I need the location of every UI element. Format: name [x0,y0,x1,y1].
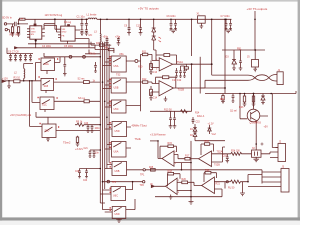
svg-text:TS2: TS2 [116,74,121,77]
svg-text:IN: IN [150,183,153,186]
svg-text:R13 50: R13 50 [164,109,172,112]
svg-text:C18: C18 [223,156,228,158]
svg-text:VIN: VIN [62,29,66,31]
svg-text:R14: R14 [195,113,200,115]
svg-text:U6A: U6A [114,151,119,154]
svg-text:R17: R17 [185,155,190,158]
svg-text:Q1 sel: Q1 sel [230,111,237,113]
svg-text:+3V TS outputs: +3V TS outputs [247,7,268,11]
svg-text:R24 100: R24 100 [231,150,240,152]
svg-text:+5V: +5V [264,126,269,129]
svg-text:R12: R12 [142,78,147,81]
svg-text:R3 10: R3 10 [14,77,21,80]
svg-text:TP1: TP1 [140,174,145,177]
svg-text:R18: R18 [168,170,173,173]
svg-text:12V 5V/3V3 reg: 12V 5V/3V3 reg [45,14,63,17]
svg-text:U6C: U6C [113,195,118,198]
svg-text:C11 C12: C11 C12 [172,79,182,82]
svg-text:R10: R10 [138,66,143,69]
svg-text:R16: R16 [205,140,210,143]
svg-text:U6D: U6D [115,213,120,216]
svg-text:+3.3V/Vsense: +3.3V/Vsense [150,134,166,137]
svg-text:C13: C13 [153,72,158,74]
svg-text:C6 100n: C6 100n [167,15,177,18]
svg-text:RL 50: RL 50 [228,187,235,190]
svg-text:C1 10u: C1 10u [77,16,86,19]
svg-text:C23: C23 [83,180,88,182]
svg-text:C14: C14 [153,98,158,100]
svg-text:+12V: +12V [2,78,8,81]
svg-text:C6 C7 C8: C6 C7 C8 [8,51,19,54]
svg-text:Vref: Vref [212,133,216,136]
svg-text:+5Va: +5Va [103,36,109,38]
svg-text:U6B: U6B [115,170,120,173]
svg-text:S2 res: S2 res [78,78,86,81]
svg-text:100n: 100n [95,128,101,130]
svg-text:SD 5V in: SD 5V in [2,16,12,19]
svg-text:40MHz TSout: 40MHz TSout [132,125,148,128]
svg-text:C21: C21 [84,148,89,150]
svg-text:DAC A: DAC A [197,115,205,118]
svg-text:U2 reg: U2 reg [64,21,72,24]
svg-text:C7 100n: C7 100n [221,15,231,18]
svg-text:S1B: S1B [44,85,49,88]
svg-text:TP3: TP3 [112,182,117,184]
svg-text:S1D: S1D [45,130,50,133]
svg-text:TSclk: TSclk [135,138,142,141]
svg-text:+3Va: +3Va [115,36,121,38]
svg-text:FB1: FB1 [237,48,242,51]
svg-text:TS1B: TS1B [178,88,185,92]
svg-text:C10: C10 [136,25,141,28]
svg-text:R15: R15 [168,142,173,145]
svg-text:U5A: U5A [114,65,119,68]
svg-text:R25: R25 [149,167,154,169]
svg-text:TP2: TP2 [140,184,145,187]
svg-text:R23: R23 [239,106,244,109]
svg-text:EN: EN [31,34,34,36]
svg-text:TSen2: TSen2 [63,142,71,145]
svg-text:I2C: I2C [89,34,93,37]
svg-text:+3.3Vs: +3.3Vs [75,148,84,151]
svg-text:R11: R11 [142,50,147,53]
svg-text:C5 100n: C5 100n [64,45,74,48]
svg-text:C20: C20 [84,123,89,125]
svg-text:R20: R20 [182,178,187,181]
svg-text:U5B: U5B [114,87,119,90]
svg-text:+5V (Vcc/IOR) out: +5V (Vcc/IOR) out [10,113,31,117]
svg-text:U5D: U5D [115,130,120,133]
svg-text:L1 ferrite: L1 ferrite [87,14,97,17]
svg-text:+5V TS outputs: +5V TS outputs [138,7,159,11]
svg-text:R19: R19 [205,169,210,172]
svg-text:TS1A: TS1A [177,60,184,64]
svg-text:VIN: VIN [31,29,35,31]
svg-text:C22: C22 [75,171,80,173]
svg-text:R9 1k: R9 1k [76,121,83,124]
svg-text:U5C: U5C [114,108,119,111]
svg-text:S3 res: S3 res [78,97,86,100]
svg-text:GND: GND [31,31,36,33]
svg-text:GND: GND [62,32,67,34]
svg-text:S1C: S1C [42,104,47,107]
svg-text:TS2B: TS2B [214,165,220,167]
svg-text:2R: 2R [20,19,23,21]
svg-text:S1A: S1A [44,63,49,66]
svg-text:+1.2V: +1.2V [208,124,215,126]
svg-text:R5 1k: R5 1k [90,53,97,56]
svg-text:R21: R21 [216,183,221,186]
svg-text:U5A: U5A [119,53,124,56]
svg-text:TS2A: TS2A [217,151,223,154]
svg-text:Q1 BFR93: Q1 BFR93 [250,122,262,125]
svg-text:C15: C15 [196,122,201,124]
svg-text:R22: R22 [220,98,225,101]
svg-text:C4 100n: C4 100n [42,45,52,48]
